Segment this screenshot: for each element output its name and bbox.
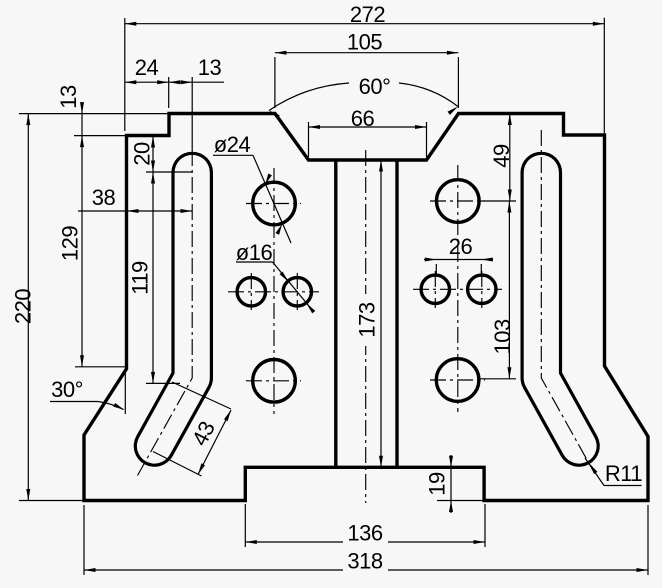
hole ø16 left-left bbox=[237, 278, 265, 306]
dimension 136 bbox=[245, 504, 485, 550]
svg-text:24: 24 bbox=[135, 55, 159, 80]
dimension 43 diagonal bbox=[153, 382, 231, 476]
left slot bbox=[155, 173, 193, 447]
left ø16 pair horizontal centerline bbox=[228, 291, 319, 293]
svg-text:173: 173 bbox=[354, 302, 379, 337]
svg-text:318: 318 bbox=[347, 549, 382, 574]
part vertical centerline bbox=[365, 150, 367, 503]
svg-text:ø24: ø24 bbox=[214, 132, 251, 157]
part outline bbox=[84, 114, 648, 501]
svg-text:ø16: ø16 bbox=[236, 240, 273, 265]
svg-text:13: 13 bbox=[56, 85, 81, 109]
dimension 129 bbox=[58, 136, 127, 367]
svg-text:20: 20 bbox=[130, 142, 155, 166]
svg-text:129: 129 bbox=[58, 226, 83, 261]
right bottom ø24 horizontal centerline bbox=[430, 379, 485, 381]
svg-text:26: 26 bbox=[449, 234, 473, 259]
svg-text:119: 119 bbox=[128, 261, 153, 295]
hole ø24 right-bottom bbox=[436, 359, 479, 402]
svg-text:66: 66 bbox=[351, 106, 375, 131]
left bottom ø24 horizontal centerline bbox=[246, 380, 301, 382]
dimension 105 bbox=[275, 30, 459, 109]
hole ø24 left-bottom bbox=[253, 360, 296, 403]
svg-text:38: 38 bbox=[92, 185, 116, 210]
svg-text:136: 136 bbox=[347, 521, 382, 546]
right ø16 pair horizontal centerline bbox=[413, 288, 502, 290]
left hole-group vertical centerline bbox=[273, 168, 275, 414]
dimension 49 right bbox=[480, 114, 516, 202]
right top ø24 horizontal centerline bbox=[430, 200, 485, 202]
dimension 66 bbox=[309, 106, 427, 157]
dimension 60 degrees bbox=[269, 74, 458, 119]
hole ø16 right-right bbox=[468, 275, 496, 303]
dimension 173 central bbox=[354, 160, 383, 467]
svg-text:103: 103 bbox=[490, 319, 515, 354]
left slot centerline bbox=[138, 150, 193, 476]
dimension 20 bbox=[130, 136, 193, 172]
label ø16 with leader bbox=[236, 240, 316, 313]
right slot bbox=[541, 173, 579, 447]
dimension 26 bbox=[424, 234, 493, 274]
central column left edge bbox=[334, 160, 337, 467]
dimension 38 bbox=[78, 185, 192, 213]
dimension 119 bbox=[128, 172, 181, 383]
hole ø16 right-left bbox=[421, 275, 449, 303]
hole ø24 right-top bbox=[437, 180, 480, 223]
right slot centerline bbox=[541, 130, 593, 471]
svg-text:272: 272 bbox=[350, 2, 385, 27]
svg-text:30°: 30° bbox=[51, 377, 83, 402]
svg-text:R11: R11 bbox=[605, 461, 642, 486]
left top ø24 horizontal centerline bbox=[246, 203, 301, 205]
svg-text:49: 49 bbox=[489, 144, 514, 168]
svg-text:13: 13 bbox=[198, 55, 222, 80]
dimension 318 bbox=[84, 505, 648, 578]
svg-text:220: 220 bbox=[11, 289, 36, 324]
svg-text:19: 19 bbox=[425, 472, 450, 496]
central column right edge bbox=[395, 160, 398, 467]
label R11 with leader bbox=[585, 458, 642, 486]
dimension 13 top bbox=[169, 55, 222, 150]
svg-text:105: 105 bbox=[347, 30, 382, 55]
right ø16 vertical crosshairs bbox=[435, 271, 482, 308]
label ø24 with leader bbox=[213, 132, 291, 243]
left ø16 vertical crosshairs bbox=[251, 273, 297, 310]
dimension 19 bbox=[425, 455, 485, 513]
dimension 272 top bbox=[125, 2, 605, 133]
dimension 30 degrees bbox=[50, 370, 125, 414]
svg-text:60°: 60° bbox=[359, 74, 391, 99]
dimension 24 top bbox=[125, 55, 224, 108]
dimension 220 left bbox=[11, 114, 170, 501]
hole ø24 left-top bbox=[253, 182, 296, 225]
dimension 13 left bbox=[56, 85, 129, 136]
dimension 103 right bbox=[480, 201, 516, 379]
hole ø16 left-right bbox=[283, 278, 311, 306]
right hole-group vertical centerline bbox=[457, 165, 459, 412]
